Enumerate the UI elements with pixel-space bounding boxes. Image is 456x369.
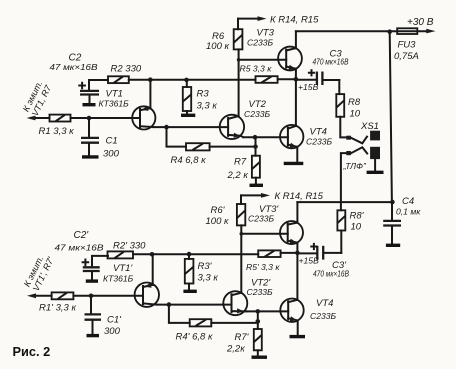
svg-text:3,3 к: 3,3 к — [198, 273, 219, 284]
capacitor C2 47мк×16В — [50, 53, 109, 104]
svg-text:С233Б: С233Б — [248, 214, 275, 224]
svg-text:R2' 330: R2' 330 — [113, 241, 146, 252]
svg-text:100 к: 100 к — [206, 216, 229, 227]
wire XS1 to lower channel R8' — [341, 153, 346, 210]
ground bar below C2 — [83, 103, 96, 106]
node VT3 emitter junction — [294, 77, 299, 126]
resistor R1 3,3к — [39, 115, 75, 137]
svg-text:„ТЛФ”: „ТЛФ” — [343, 161, 367, 171]
svg-text:+15В: +15В — [298, 82, 319, 92]
transistor VT4' С233Б — [280, 298, 336, 335]
transistor VT1' КТ361Б — [103, 254, 159, 307]
wire R6 to VT3 base and VT2 collector — [237, 49, 286, 116]
wire lower rail — [133, 252, 258, 257]
resistor R3 3,3к — [183, 80, 218, 114]
svg-text:VT4: VT4 — [316, 298, 333, 309]
svg-text:47 мк×16В: 47 мк×16В — [50, 62, 98, 72]
wire upper rail — [129, 77, 256, 82]
transistor VT2 С233Б — [220, 99, 271, 139]
svg-text:+30 В: +30 В — [407, 17, 434, 28]
svg-text:10: 10 — [351, 222, 362, 233]
resistor R8 10 — [336, 80, 361, 137]
resistor R1' 3,3к — [39, 292, 76, 313]
transistor VT2' С233Б — [223, 278, 273, 316]
svg-text:К R14, R15: К R14, R15 — [275, 191, 324, 202]
svg-text:С233Б: С233Б — [310, 311, 337, 321]
wire VT3 collector to fuse node — [296, 29, 392, 34]
wire input lower channel — [27, 293, 52, 298]
svg-text:R4' 6,8 к: R4' 6,8 к — [176, 332, 213, 343]
resistor R8' 10 — [337, 210, 364, 253]
svg-text:С233Б: С233Б — [247, 287, 274, 297]
wire R1 to VT1 base — [71, 116, 141, 121]
svg-text:КТ361Б: КТ361Б — [99, 99, 130, 109]
svg-text:R7: R7 — [234, 157, 247, 168]
svg-text:470 мк×16В: 470 мк×16В — [313, 57, 349, 67]
ground bar below C4 — [386, 244, 400, 247]
svg-text:3,3 к: 3,3 к — [197, 101, 218, 112]
svg-text:R1 3,3 к: R1 3,3 к — [39, 126, 75, 137]
svg-text:R3: R3 — [197, 89, 210, 100]
wire VT1' collector to VT2' base — [157, 302, 232, 307]
wire R6' to VT3' base and VT2' collector — [240, 225, 288, 292]
svg-text:R7': R7' — [235, 332, 250, 343]
ground bar below C1 — [82, 155, 99, 158]
resistor R2' 330 — [108, 241, 147, 259]
resistor R7' 2,2к — [226, 311, 262, 355]
wire R1' to VT1' base — [73, 294, 143, 299]
svg-text:470 мк×16В: 470 мк×16В — [313, 269, 349, 279]
wire output arrow К R14, R15 — [238, 14, 319, 25]
svg-text:R5 3,3 к: R5 3,3 к — [240, 64, 273, 74]
resistor R6 100к — [206, 19, 242, 53]
fuse FU3 0,75А — [390, 17, 436, 62]
svg-text:КТ361Б: КТ361Б — [103, 274, 134, 284]
svg-text:0,1 мк: 0,1 мк — [396, 207, 421, 217]
capacitor C1' 300 — [85, 296, 123, 337]
svg-text:С4: С4 — [402, 196, 414, 207]
resistor R7 2,2к — [227, 137, 260, 184]
svg-text:R5' 3,3 к: R5' 3,3 к — [246, 262, 280, 272]
svg-text:XS1: XS1 — [360, 121, 379, 132]
ground bar below VT4 emitter — [284, 162, 304, 165]
capacitor C2' 47мк×16В — [55, 230, 109, 279]
ground bar below R7' — [252, 356, 268, 359]
svg-text:2,2 к: 2,2 к — [227, 170, 249, 181]
transistor VT3' С233Б — [248, 202, 303, 253]
ground bar below R3' — [183, 290, 196, 293]
capacitor C3 470мк×16В — [296, 49, 349, 93]
label input node К эмит. VT1, R7 — [21, 78, 54, 117]
svg-text:R8: R8 — [348, 97, 361, 108]
capacitor C4 0,1мк — [383, 196, 421, 244]
caption Рис. 2 — [13, 344, 51, 359]
svg-text:2,2к: 2,2к — [226, 344, 245, 355]
svg-text:С1': С1' — [107, 315, 122, 326]
ground bar below R7 — [250, 184, 264, 187]
ground bar below R3 — [181, 114, 195, 117]
svg-text:С233Б: С233Б — [306, 137, 333, 147]
wire VT2 emitter to VT4 base — [243, 135, 288, 140]
transistor VT4 С233Б — [280, 125, 333, 162]
wire output arrow К R14, R15 lower — [241, 191, 324, 202]
svg-text:R8': R8' — [350, 211, 365, 222]
connector XS1 — [343, 121, 381, 171]
svg-text:С2': С2' — [74, 230, 90, 241]
wire +30V vertical bus — [390, 32, 392, 202]
wire VT3' collector to bus node — [297, 200, 394, 205]
resistor R2 330 — [108, 64, 142, 84]
capacitor C1 300 — [81, 118, 120, 160]
svg-text:300: 300 — [104, 326, 121, 337]
svg-text:R2 330: R2 330 — [111, 64, 142, 75]
node VT3' emitter junction — [295, 251, 300, 300]
wire VT2' emitter to VT4' base — [246, 309, 288, 314]
svg-text:Рис. 2: Рис. 2 — [13, 344, 51, 359]
svg-text:VT1': VT1' — [113, 263, 133, 274]
resistor R5' 3,3к — [246, 250, 297, 272]
wire VT1 collector to VT2 base — [154, 125, 229, 130]
capacitor C3' 470мк×16В — [297, 244, 349, 279]
svg-text:R4 6,8 к: R4 6,8 к — [171, 155, 207, 166]
wire input upper channel — [27, 116, 50, 121]
resistor R3' 3,3к — [185, 254, 219, 290]
svg-text:С233Б: С233Б — [244, 109, 271, 119]
ground bar below VT4' emitter — [290, 335, 306, 338]
resistor R6' 100к — [206, 195, 246, 227]
ground bar below C1' — [87, 334, 100, 337]
svg-text:+15В: +15В — [299, 256, 320, 266]
resistor R4 6,8к — [167, 127, 255, 166]
svg-text:10: 10 — [350, 109, 361, 120]
ground bar below XS1 plug — [367, 171, 384, 174]
label input node К эмит. VT1', R7' — [22, 251, 56, 293]
svg-text:R6': R6' — [211, 205, 226, 216]
svg-text:К R14, R15: К R14, R15 — [270, 14, 319, 25]
resistor R5 3,3к — [240, 64, 296, 83]
svg-text:С1: С1 — [106, 136, 118, 147]
svg-text:0,75А: 0,75А — [394, 51, 419, 62]
svg-text:С233Б: С233Б — [247, 38, 274, 48]
transistor VT1 КТ361Б — [99, 80, 156, 130]
transistor VT3 С233Б — [247, 28, 302, 80]
svg-text:R3': R3' — [198, 261, 213, 272]
resistor R4' 6,8к — [169, 305, 258, 343]
svg-text:300: 300 — [103, 149, 120, 160]
svg-text:FU3: FU3 — [398, 40, 417, 51]
svg-text:100 к: 100 к — [206, 41, 229, 52]
svg-text:R1' 3,3 к: R1' 3,3 к — [39, 303, 76, 314]
ground bar below C2' — [86, 279, 98, 282]
svg-text:47 мк×16В: 47 мк×16В — [55, 243, 104, 253]
